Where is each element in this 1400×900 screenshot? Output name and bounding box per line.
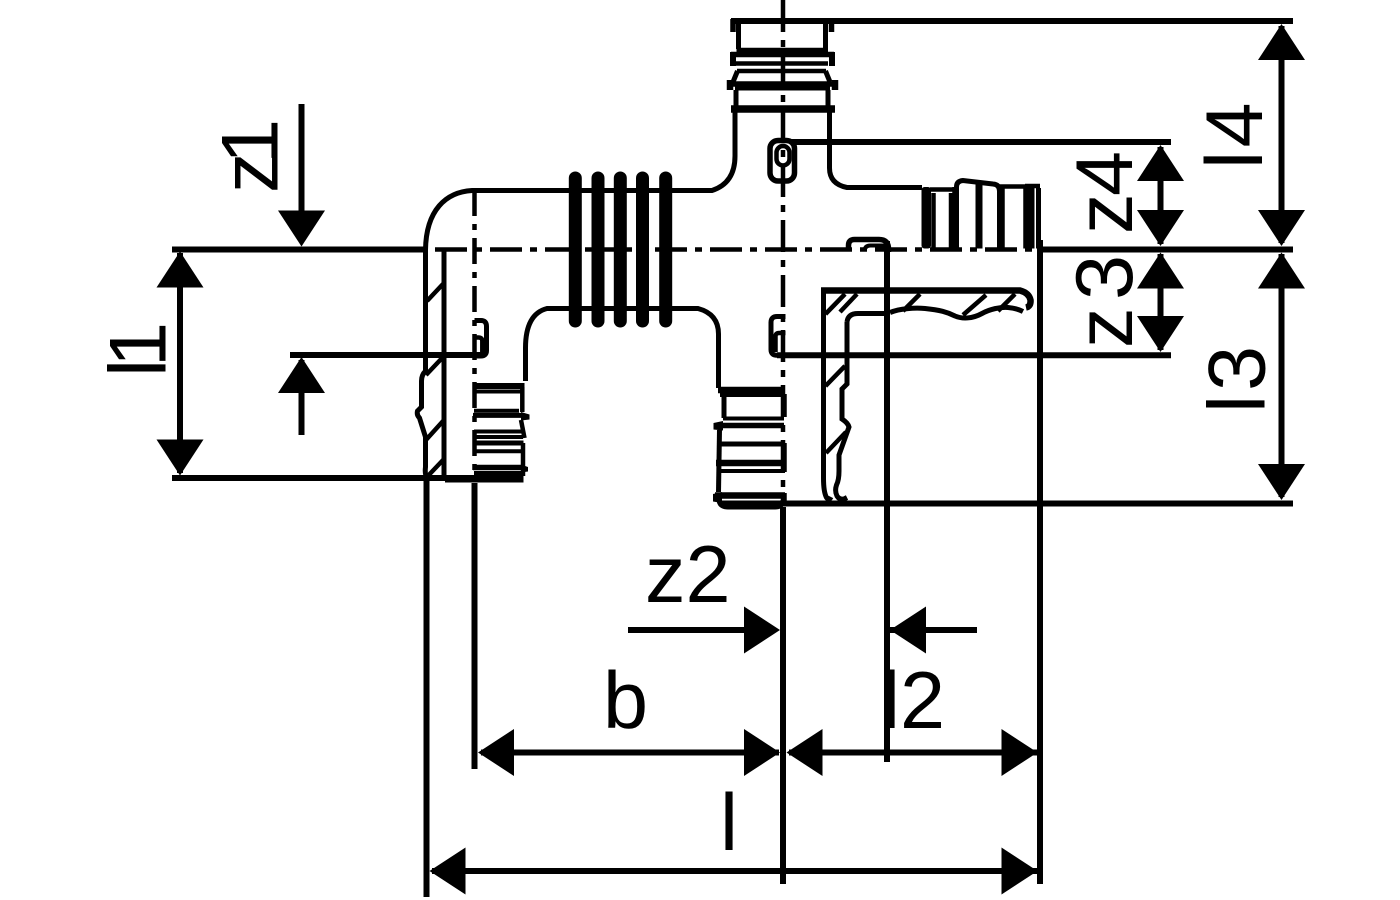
- l2 right: [1002, 729, 1038, 776]
- extension line y355 right: [777, 352, 1171, 358]
- l3 down: [1258, 464, 1305, 500]
- inner wall left outlet: [442, 251, 447, 476]
- extension line bottom y503: [722, 501, 1293, 507]
- l4 up: [1258, 24, 1305, 60]
- z3 up: [1137, 253, 1184, 289]
- body outline: neck right, shoulder to right outlet: [830, 112, 923, 188]
- centerline horizontal y250: [435, 247, 1040, 252]
- extension line y355 left: [290, 352, 483, 358]
- right outlet section below centerline: [821, 291, 1031, 308]
- l4 down: [1258, 210, 1305, 246]
- svg-text:l: l: [1190, 151, 1280, 169]
- l right: [1002, 848, 1038, 895]
- svg-text:z2: z2: [645, 530, 731, 620]
- extension line centerline right solid: [1039, 247, 1293, 253]
- l1 down: [157, 440, 204, 476]
- dimension z1 lower arrow: [299, 360, 305, 435]
- svg-text:3: 3: [1193, 346, 1283, 391]
- right outlet sleeve above centerline: [922, 187, 932, 249]
- dimension l3: [1279, 254, 1285, 497]
- svg-text:l: l: [1193, 395, 1283, 413]
- l3 up: [1258, 253, 1305, 289]
- extension line top l4 (also top rim of upper outlet): [731, 18, 1293, 24]
- thick bottom rim of top sleeve: [731, 105, 835, 113]
- dimension z3: [1158, 254, 1164, 350]
- dimension l4: [1279, 26, 1285, 243]
- corrugation ribs: [569, 178, 582, 321]
- svg-text:l: l: [720, 778, 738, 868]
- dimension z4: [1158, 147, 1164, 244]
- svg-text:z: z: [1060, 308, 1150, 349]
- extension line x474 (b left): [472, 483, 478, 769]
- extension line x783 (center below): [780, 507, 786, 884]
- z1 up at y355: [278, 357, 325, 393]
- svg-text:z: z: [1060, 194, 1150, 235]
- l1 up: [157, 252, 204, 288]
- z4 down: [1137, 210, 1184, 246]
- hatch right outlet section: [840, 294, 857, 312]
- dimension l: [432, 868, 1037, 874]
- bottom outlet sleeve (left half): [718, 387, 784, 394]
- svg-text:3: 3: [1060, 255, 1150, 300]
- z2 right-pointing at x780: [744, 607, 780, 654]
- left outlet window notch: [474, 321, 487, 357]
- hatch left outlet wall: [427, 284, 443, 301]
- b right: [744, 729, 780, 776]
- top outlet sleeve: [730, 19, 736, 32]
- z1 down at y248: [278, 211, 325, 247]
- z3 down: [1137, 316, 1184, 352]
- l2 left: [787, 729, 823, 776]
- dimension z2 left part: [628, 627, 746, 633]
- pipe bottom line with corners: left outlet right edge and bottom outlet left edge: [526, 309, 719, 389]
- l left: [430, 848, 466, 895]
- right outlet notch on centerline: [849, 240, 889, 253]
- z4 up: [1137, 145, 1184, 181]
- dimension z1 upper arrow: [299, 104, 305, 240]
- top outlet window notch: [770, 141, 795, 182]
- dimension l1: [177, 253, 183, 473]
- left outlet sleeve lines (right half): [474, 383, 525, 389]
- dimension l2: [789, 750, 1037, 756]
- extension line l1 top (left of centerline): [172, 247, 428, 253]
- svg-text:b: b: [603, 656, 648, 746]
- svg-text:1: 1: [94, 322, 184, 367]
- z2 left-pointing at x890: [890, 607, 926, 654]
- extension line l1 bottom: [172, 475, 523, 481]
- centerline vertical x783: [781, 0, 786, 505]
- body outline: neck left, top pipe line, elbow corner, left outer edge: [417, 112, 735, 479]
- centerline left outlet x474: [472, 190, 477, 481]
- arrowheads: [157, 24, 1306, 895]
- svg-text:1: 1: [206, 119, 296, 164]
- svg-text:4: 4: [1190, 102, 1280, 147]
- extension line x887 (z2/l2): [884, 241, 890, 762]
- extension line x426 (l left): [424, 481, 430, 897]
- extension line x1040 (right end): [1037, 240, 1043, 884]
- svg-text:4: 4: [1060, 151, 1150, 196]
- extension line z4 top: [791, 139, 1171, 145]
- svg-text:l2: l2: [882, 656, 945, 746]
- dimension b: [481, 750, 779, 756]
- bottom outlet window notch: [771, 317, 786, 356]
- b left: [478, 729, 514, 776]
- bottom outlet wall section (right): [824, 292, 832, 499]
- dimension z2 right part: [890, 627, 977, 633]
